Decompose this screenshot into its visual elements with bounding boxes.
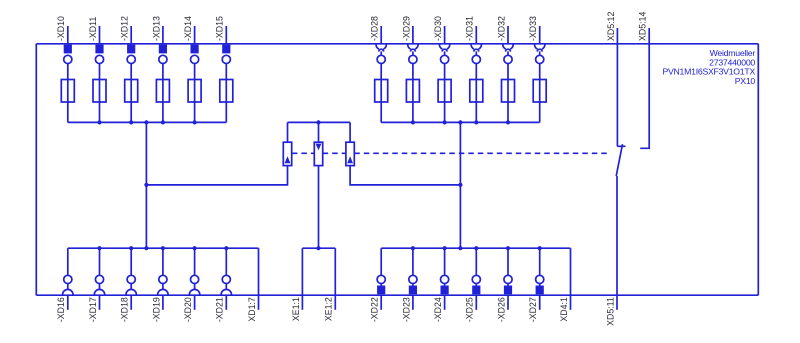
fuse below -XD33 bbox=[533, 64, 546, 123]
wire: group bus under fuses XD10-XD15 bbox=[68, 121, 227, 123]
terminal -XD15 bbox=[215, 16, 231, 64]
junction bbox=[474, 246, 478, 250]
wire: dashed status/monitoring line, segment 1 bbox=[292, 152, 314, 154]
svg-text:-XD22: -XD22 bbox=[370, 297, 380, 322]
junction bbox=[129, 246, 133, 250]
junction bbox=[538, 246, 542, 250]
terminal -XD30 bbox=[433, 16, 450, 64]
terminal XD5:11 bbox=[605, 295, 617, 326]
svg-text:-XD26: -XD26 bbox=[496, 297, 506, 322]
svg-text:XD5:11: XD5:11 bbox=[605, 297, 615, 326]
svg-text:-XD33: -XD33 bbox=[528, 16, 538, 41]
fuse below -XD28 bbox=[375, 64, 388, 123]
svg-text:-XD31: -XD31 bbox=[465, 16, 475, 41]
fuse below -XD15 bbox=[220, 64, 233, 123]
terminal -XD31 bbox=[465, 16, 482, 64]
svg-text:-XD24: -XD24 bbox=[433, 297, 443, 322]
svg-text:-XD11: -XD11 bbox=[88, 17, 98, 41]
junction bbox=[506, 120, 510, 124]
junction bbox=[144, 120, 148, 124]
terminal -XD10 bbox=[56, 16, 72, 64]
fuse below -XD32 bbox=[502, 64, 515, 123]
terminal -XD14 bbox=[183, 16, 199, 64]
junction bbox=[458, 183, 462, 187]
junction bbox=[443, 246, 447, 250]
junction bbox=[193, 120, 197, 124]
terminal -XD29 bbox=[401, 16, 418, 64]
svg-text:XE1:1: XE1:1 bbox=[291, 297, 301, 321]
junction bbox=[161, 246, 165, 250]
fuse below -XD29 bbox=[406, 64, 419, 123]
wire: switch to XD5:11 terminal bbox=[616, 176, 618, 295]
wire: top supply bus bbox=[36, 43, 758, 45]
terminal -XD28 bbox=[370, 16, 387, 64]
wire: link from left tie line to surge arrester F1 bbox=[146, 166, 287, 185]
terminal -XD20 bbox=[183, 248, 200, 322]
svg-text:-XD12: -XD12 bbox=[120, 16, 130, 41]
svg-text:XD4:1: XD4:1 bbox=[559, 297, 569, 322]
terminal -XD11 bbox=[88, 17, 104, 64]
junction bbox=[144, 183, 148, 187]
wire: right edge of device outline bbox=[757, 44, 759, 295]
fuse below -XD30 bbox=[438, 64, 451, 123]
wire: lower-left group bus bbox=[68, 247, 259, 249]
svg-text:-XD20: -XD20 bbox=[183, 297, 193, 322]
terminal -XD12 bbox=[120, 16, 136, 64]
svg-text:XE1:2: XE1:2 bbox=[324, 297, 334, 321]
terminal -XD25 bbox=[465, 248, 481, 322]
terminal -XD32 bbox=[496, 16, 513, 64]
terminal -XD24 bbox=[433, 248, 449, 322]
fuse below -XD14 bbox=[188, 64, 201, 123]
svg-text:-XD13: -XD13 bbox=[151, 16, 161, 41]
junction bbox=[97, 246, 101, 250]
wire: bottom supply bus bbox=[36, 294, 758, 296]
junction bbox=[506, 246, 510, 250]
svg-text:-XD15: -XD15 bbox=[215, 16, 225, 41]
junction bbox=[129, 120, 133, 124]
surge arrester F1 (varistor, arrow up) bbox=[283, 122, 291, 165]
junction bbox=[224, 246, 228, 250]
svg-text:-XD32: -XD32 bbox=[496, 16, 506, 41]
surge arrester F3 (varistor, arrow up) bbox=[346, 122, 354, 165]
svg-text:XD1:7: XD1:7 bbox=[247, 297, 257, 322]
svg-text:-XD18: -XD18 bbox=[120, 297, 130, 322]
junction bbox=[316, 246, 320, 250]
terminal -XD23 bbox=[401, 248, 417, 322]
svg-text:-XD17: -XD17 bbox=[88, 297, 98, 322]
terminal XD1:7 bbox=[247, 248, 259, 321]
terminal XD4:1 bbox=[559, 248, 571, 321]
svg-text:-XD14: -XD14 bbox=[183, 16, 193, 41]
wire: left edge of device outline bbox=[35, 44, 37, 295]
fuse below -XD13 bbox=[156, 64, 169, 123]
svg-text:-XD27: -XD27 bbox=[528, 297, 538, 322]
terminal -XD27 bbox=[528, 248, 544, 322]
svg-text:-XD23: -XD23 bbox=[401, 297, 411, 322]
svg-text:-XD16: -XD16 bbox=[56, 297, 66, 322]
svg-text:-XD19: -XD19 bbox=[151, 297, 161, 322]
wire: left tie line from group bus 1 down to lower-left bus bbox=[145, 122, 147, 248]
svg-text:-XD29: -XD29 bbox=[401, 16, 411, 41]
junction bbox=[193, 246, 197, 250]
svg-text:-XD21: -XD21 bbox=[215, 297, 225, 322]
wire: right tie line from group bus 2 down to lower-right bus bbox=[459, 122, 461, 248]
junction bbox=[97, 120, 101, 124]
svg-text:XD5:14: XD5:14 bbox=[638, 12, 648, 41]
junction bbox=[443, 120, 447, 124]
junction bbox=[144, 246, 148, 250]
terminal -XD21 bbox=[215, 248, 232, 322]
surge arrester F2 (varistor, arrow down) bbox=[314, 122, 322, 248]
fuse below -XD31 bbox=[470, 64, 483, 123]
terminal -XD26 bbox=[496, 248, 512, 322]
terminal -XD18 bbox=[120, 248, 137, 322]
svg-text:PX10: PX10 bbox=[735, 76, 756, 86]
terminal -XD33 bbox=[528, 16, 545, 64]
fuse below -XD11 bbox=[93, 64, 106, 123]
wire: link from surge arrester F3 to right tie line bbox=[350, 166, 460, 185]
terminal -XD16 bbox=[56, 248, 73, 322]
wire: lower-right group bus bbox=[381, 247, 570, 249]
svg-text:XD5:12: XD5:12 bbox=[606, 12, 616, 41]
terminal XD5:14 bbox=[638, 12, 650, 149]
terminal XD5:12 bbox=[606, 12, 618, 147]
terminal XE1:2 bbox=[324, 248, 336, 321]
wire: dashed status/monitoring line, segment 2 bbox=[323, 152, 346, 154]
terminal XE1:1 bbox=[291, 248, 303, 321]
svg-text:-XD25: -XD25 bbox=[465, 297, 475, 322]
junction bbox=[161, 120, 165, 124]
junction bbox=[474, 120, 478, 124]
fuse below -XD10 bbox=[61, 64, 74, 123]
wire: XE1 link bar bbox=[302, 247, 335, 249]
junction bbox=[458, 120, 462, 124]
junction bbox=[411, 120, 415, 124]
junction bbox=[411, 246, 415, 250]
wire: group bus under fuses XD28-XD33 bbox=[381, 121, 540, 123]
wire: dashed status/monitoring line, segment 3 bbox=[354, 152, 610, 154]
svg-text:-XD28: -XD28 bbox=[370, 16, 380, 41]
terminal -XD22 bbox=[370, 248, 386, 322]
svg-text:-XD30: -XD30 bbox=[433, 16, 443, 41]
wire: arrester top link bar bbox=[288, 121, 351, 123]
terminal -XD19 bbox=[151, 248, 168, 322]
fuse below -XD12 bbox=[125, 64, 138, 123]
terminal -XD17 bbox=[88, 248, 105, 322]
junction bbox=[316, 120, 320, 124]
switch S1 fixed contact tick bbox=[617, 145, 625, 147]
switch S1 blade bbox=[616, 144, 622, 176]
svg-text:-XD10: -XD10 bbox=[56, 16, 66, 41]
junction bbox=[458, 246, 462, 250]
terminal -XD13 bbox=[151, 16, 167, 64]
